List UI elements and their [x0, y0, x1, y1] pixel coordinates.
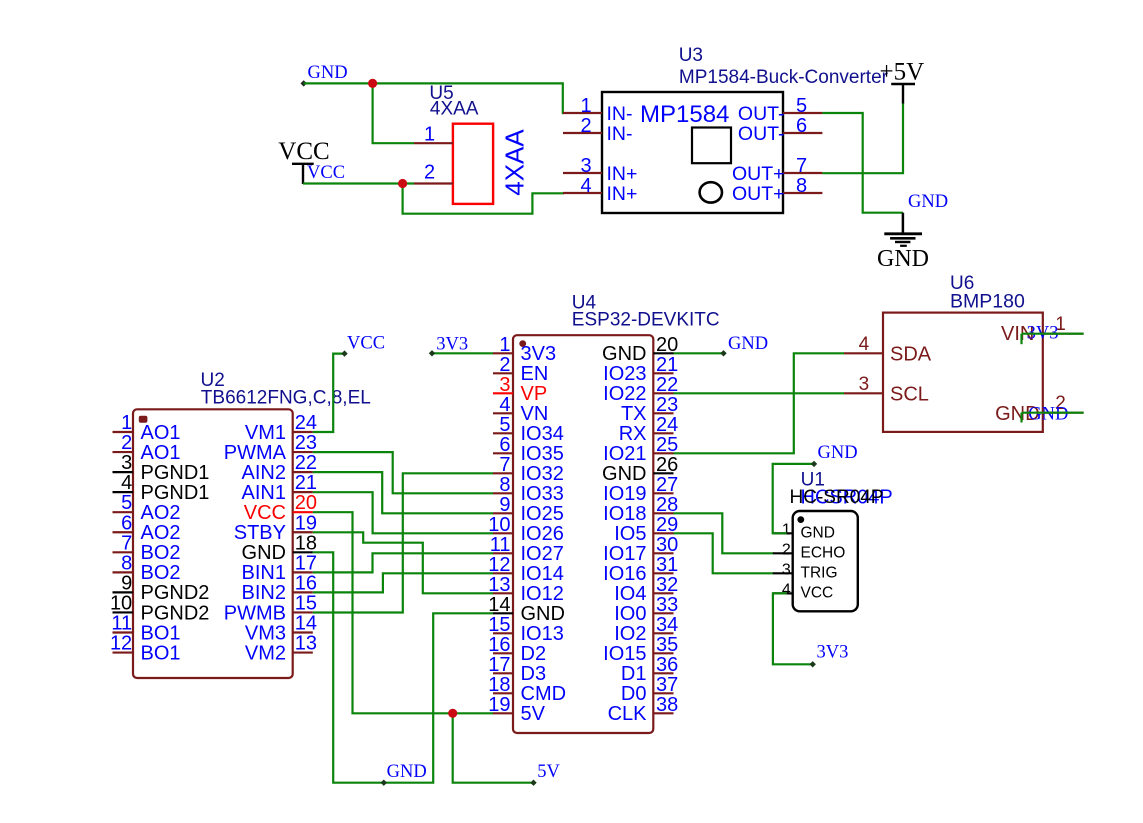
svg-text:6: 6 — [121, 512, 132, 534]
svg-text:3: 3 — [580, 155, 591, 177]
svg-text:21: 21 — [295, 472, 317, 494]
svg-text:IO23: IO23 — [603, 363, 646, 385]
svg-text:2: 2 — [499, 354, 510, 376]
wire U2.21 (AIN1) to U4.10 (IO26) — [313, 492, 493, 533]
svg-text:D0: D0 — [621, 683, 647, 705]
svg-text:1: 1 — [499, 334, 510, 356]
svg-text:21: 21 — [656, 354, 678, 376]
net label GND (U6 GND) — [1028, 405, 1068, 425]
wire U1.4 (VCC) to 3V3 label — [773, 593, 816, 667]
svg-text:1: 1 — [782, 521, 791, 538]
svg-text:3: 3 — [859, 374, 870, 395]
svg-text:GND: GND — [387, 762, 427, 782]
svg-text:BO1: BO1 — [141, 642, 181, 664]
svg-text:IO26: IO26 — [521, 523, 564, 545]
ultrasonic sensor U1 HC-SR04P — [773, 470, 893, 612]
svg-text:ESP32-DEVKITC: ESP32-DEVKITC — [572, 310, 720, 331]
svg-text:16: 16 — [488, 634, 510, 656]
svg-text:D1: D1 — [621, 663, 647, 685]
svg-text:27: 27 — [656, 474, 678, 496]
svg-text:BIN1: BIN1 — [242, 562, 286, 584]
battery holder U5 4XAA — [414, 83, 530, 204]
svg-text:14: 14 — [295, 613, 317, 635]
svg-text:3V3: 3V3 — [436, 335, 468, 355]
svg-text:STBY: STBY — [234, 522, 286, 544]
svg-text:2: 2 — [121, 432, 132, 454]
net label GND (U4 pin 20) — [728, 334, 768, 354]
svg-text:PWMA: PWMA — [224, 442, 287, 464]
svg-text:33: 33 — [656, 594, 678, 616]
svg-text:3V3: 3V3 — [817, 643, 849, 663]
svg-text:15: 15 — [488, 614, 510, 636]
svg-text:GND: GND — [728, 334, 768, 354]
svg-text:24: 24 — [295, 412, 317, 434]
svg-text:22: 22 — [295, 452, 317, 474]
net label GND (blue, at earth symbol) — [908, 192, 948, 212]
svg-text:4XAA: 4XAA — [500, 129, 530, 196]
svg-text:IO4: IO4 — [614, 583, 646, 605]
net label 3V3 (U6 VIN) — [1027, 324, 1059, 344]
wire U4.20 (GND) to label — [674, 350, 727, 356]
svg-text:IO25: IO25 — [521, 503, 564, 525]
svg-text:2: 2 — [580, 115, 591, 137]
svg-text:10: 10 — [110, 592, 132, 614]
junction 5V net — [448, 709, 457, 718]
svg-text:PWMB: PWMB — [224, 602, 286, 624]
svg-text:IO5: IO5 — [614, 523, 646, 545]
svg-text:5V: 5V — [521, 703, 546, 725]
svg-text:8: 8 — [796, 175, 807, 197]
svg-text:AO1: AO1 — [141, 422, 181, 444]
wire U2.19 (STBY) to U4.13 (IO12) — [313, 532, 493, 593]
svg-text:11: 11 — [111, 613, 132, 635]
svg-text:1: 1 — [580, 95, 591, 117]
svg-text:4: 4 — [580, 175, 591, 197]
svg-text:16: 16 — [295, 572, 317, 594]
svg-text:AO2: AO2 — [141, 522, 181, 544]
svg-text:3: 3 — [121, 452, 132, 474]
svg-text:IO34: IO34 — [521, 423, 564, 445]
svg-text:D3: D3 — [521, 663, 547, 685]
svg-text:IO18: IO18 — [603, 503, 646, 525]
net label 5V (bottom) — [537, 762, 560, 782]
svg-text:HC-SR04P: HC-SR04P — [790, 487, 884, 508]
wire U2.22 (AIN2) to U4.9 (IO25) — [313, 472, 493, 513]
svg-text:IO13: IO13 — [521, 623, 564, 645]
wire GND branch: junction to U5 pin 1 — [373, 83, 414, 143]
svg-text:3V3: 3V3 — [521, 343, 557, 365]
svg-text:VCC: VCC — [307, 163, 345, 183]
svg-text:GND: GND — [308, 63, 348, 83]
svg-text:17: 17 — [295, 552, 317, 574]
svg-text:CMD: CMD — [521, 683, 567, 705]
svg-text:32: 32 — [656, 574, 678, 596]
svg-text:SCL: SCL — [890, 384, 929, 406]
svg-text:IO21: IO21 — [603, 443, 646, 465]
svg-text:GND: GND — [908, 192, 948, 212]
wire GND: label to U3 pin 1 (IN-) — [304, 83, 565, 113]
svg-text:RX: RX — [619, 423, 647, 445]
svg-text:PGND1: PGND1 — [141, 462, 210, 484]
svg-text:4XAA: 4XAA — [430, 99, 479, 120]
net label GND (top left) — [308, 63, 348, 83]
svg-text:IO27: IO27 — [521, 543, 564, 565]
svg-text:SDA: SDA — [890, 344, 932, 366]
wire VCC label to U2.24 (VM1) — [313, 350, 348, 432]
net label VCC (blue) — [307, 163, 345, 183]
svg-text:24: 24 — [656, 414, 678, 436]
svg-text:AO1: AO1 — [141, 442, 181, 464]
svg-text:5V: 5V — [537, 762, 560, 782]
junction GND / U5.1 — [368, 79, 377, 88]
svg-text:U3: U3 — [679, 45, 703, 66]
wire U2.15 (PWMB) to U4.7 (IO32) — [313, 473, 493, 612]
svg-text:36: 36 — [656, 654, 678, 676]
power label GND (black, below earth symbol) — [877, 246, 929, 272]
net label GND (bottom) — [387, 762, 427, 782]
svg-text:9: 9 — [499, 494, 510, 516]
power flag +5V — [880, 59, 925, 104]
svg-text:5: 5 — [121, 492, 132, 514]
svg-text:17: 17 — [488, 654, 510, 676]
wire 5V branch: junction to 5V label stub — [453, 713, 537, 786]
junction VCC / U5.2 — [398, 179, 407, 188]
svg-text:38: 38 — [656, 694, 678, 716]
microcontroller U4 ESP32-DEVKITC — [488, 293, 719, 734]
svg-text:8: 8 — [121, 552, 132, 574]
svg-text:1: 1 — [424, 124, 435, 146]
motor driver U2 TB6612FNG,C,8,EL — [110, 370, 371, 678]
svg-text:EN: EN — [521, 363, 549, 385]
svg-text:VP: VP — [521, 383, 548, 405]
svg-text:2: 2 — [424, 161, 435, 183]
svg-text:D2: D2 — [521, 643, 547, 665]
svg-text:PGND2: PGND2 — [141, 602, 210, 624]
svg-text:GND: GND — [521, 603, 565, 625]
svg-text:20: 20 — [295, 492, 317, 514]
svg-text:VCC: VCC — [278, 138, 329, 165]
svg-text:VN: VN — [521, 403, 549, 425]
svg-text:OUT+: OUT+ — [732, 183, 785, 205]
wire U2.20 (VCC) to U4.19 (5V) — [313, 512, 493, 713]
wire U4.25 (IO21) to U6.4 (SDA) — [674, 353, 845, 453]
wire U2.23 (PWMA) to U4.8 (IO33) — [313, 452, 493, 493]
svg-text:GND: GND — [818, 443, 858, 463]
net label 3V3 (U4 pin 1) — [436, 335, 468, 355]
svg-text:18: 18 — [488, 674, 510, 696]
svg-text:PGND2: PGND2 — [141, 582, 210, 604]
wire U4.28 (IO18) to U1.2 (ECHO) — [674, 513, 774, 553]
svg-text:VM3: VM3 — [245, 622, 286, 644]
svg-text:PGND1: PGND1 — [141, 482, 210, 504]
svg-text:BO2: BO2 — [141, 562, 181, 584]
svg-text:GND: GND — [801, 525, 835, 542]
net label VCC (U2 VM1) — [347, 334, 385, 354]
svg-text:VCC: VCC — [347, 334, 385, 354]
svg-text:OUT-: OUT- — [738, 123, 785, 145]
net label GND (above U1) — [818, 443, 858, 463]
svg-text:IO35: IO35 — [521, 443, 564, 465]
svg-text:7: 7 — [796, 155, 807, 177]
svg-text:IO16: IO16 — [603, 563, 646, 585]
svg-text:GND: GND — [602, 463, 646, 485]
pressure sensor U6 BMP180 — [844, 273, 1084, 432]
svg-text:37: 37 — [656, 674, 678, 696]
svg-text:IO33: IO33 — [521, 483, 564, 505]
svg-text:IO32: IO32 — [521, 463, 564, 485]
svg-text:30: 30 — [656, 534, 678, 556]
wire U3.7 (OUT+) to +5V flag — [822, 103, 903, 174]
svg-text:3: 3 — [499, 374, 510, 396]
svg-text:IN+: IN+ — [607, 183, 638, 205]
svg-text:+5V: +5V — [880, 59, 925, 86]
svg-text:BO2: BO2 — [141, 542, 181, 564]
svg-text:4: 4 — [859, 334, 870, 355]
svg-text:18: 18 — [295, 532, 317, 554]
svg-text:IN-: IN- — [607, 103, 633, 125]
power symbol GND (earth) — [884, 213, 922, 246]
svg-text:IO12: IO12 — [521, 583, 564, 605]
svg-text:VCC: VCC — [801, 585, 834, 602]
svg-text:VM1: VM1 — [245, 422, 286, 444]
svg-text:CLK: CLK — [608, 703, 648, 725]
svg-text:13: 13 — [295, 633, 317, 655]
wire VCC branch: junction to U3 pin 4 (IN+) — [403, 184, 564, 214]
svg-text:5: 5 — [796, 95, 807, 117]
svg-text:AIN2: AIN2 — [242, 462, 286, 484]
svg-text:6: 6 — [499, 434, 510, 456]
wire U2.16 (BIN2) to U4.12 (IO14) — [313, 573, 493, 592]
svg-text:26: 26 — [656, 454, 678, 476]
svg-text:MP1584: MP1584 — [640, 101, 729, 128]
svg-text:23: 23 — [656, 394, 678, 416]
svg-text:IO17: IO17 — [603, 543, 646, 565]
svg-text:7: 7 — [499, 454, 510, 476]
svg-text:IO22: IO22 — [603, 383, 646, 405]
net label 3V3 (below U1) — [817, 643, 849, 663]
svg-text:IO2: IO2 — [614, 623, 646, 645]
svg-text:BIN2: BIN2 — [242, 582, 286, 604]
wire VCC: power flag to U5 pin 2 — [303, 182, 414, 184]
buck converter U3 MP1584-Buck-Converter — [563, 45, 889, 213]
svg-text:4: 4 — [499, 394, 510, 416]
wire 3V3 stub at U6.1 — [1022, 334, 1084, 345]
wire U4.22 (IO22) to U6.3 (SCL) — [674, 392, 845, 394]
svg-text:GND: GND — [1028, 405, 1068, 425]
svg-text:VCC: VCC — [244, 502, 286, 524]
svg-text:MP1584-Buck-Converter: MP1584-Buck-Converter — [679, 67, 889, 88]
svg-text:GND: GND — [877, 246, 929, 272]
svg-text:6: 6 — [796, 115, 807, 137]
svg-text:ECHO: ECHO — [801, 545, 846, 562]
wire 3V3 label to U4.1 — [429, 350, 493, 356]
net label anchor (GND wire end) — [301, 80, 307, 86]
svg-text:2: 2 — [782, 541, 791, 558]
svg-text:7: 7 — [121, 532, 132, 554]
svg-text:23: 23 — [295, 432, 317, 454]
svg-text:IN+: IN+ — [607, 163, 638, 185]
svg-text:15: 15 — [295, 592, 317, 614]
svg-text:OUT-: OUT- — [738, 103, 785, 125]
svg-text:4: 4 — [782, 581, 791, 598]
svg-text:IN-: IN- — [607, 123, 633, 145]
svg-text:1: 1 — [121, 412, 132, 434]
svg-text:IO19: IO19 — [603, 483, 646, 505]
svg-text:AIN1: AIN1 — [242, 482, 286, 504]
svg-text:IO15: IO15 — [603, 643, 646, 665]
svg-text:5: 5 — [499, 414, 510, 436]
svg-text:TX: TX — [621, 403, 647, 425]
svg-text:TRIG: TRIG — [801, 565, 838, 582]
wire U2.18 (GND) to U4.14 (GND) — [313, 552, 493, 786]
svg-text:BO1: BO1 — [141, 622, 181, 644]
wire U2.17 (BIN1) to U4.11 (IO27) — [313, 553, 493, 572]
svg-text:3: 3 — [782, 561, 791, 578]
svg-text:AO2: AO2 — [141, 502, 181, 524]
svg-text:IO0: IO0 — [614, 603, 646, 625]
wire GND label to U1.1 (GND) — [773, 461, 818, 534]
svg-text:35: 35 — [656, 634, 678, 656]
power flag VCC (battery input) — [278, 138, 329, 184]
svg-text:19: 19 — [295, 512, 317, 534]
svg-text:31: 31 — [656, 554, 678, 576]
wire GND stub at U6.2 — [1022, 413, 1084, 423]
svg-text:VM2: VM2 — [245, 642, 286, 664]
wire U4.29 (IO5) to U1.3 (TRIG) — [674, 533, 774, 573]
svg-text:IO14: IO14 — [521, 563, 564, 585]
svg-text:34: 34 — [656, 614, 678, 636]
svg-text:12: 12 — [110, 633, 132, 655]
svg-text:8: 8 — [499, 474, 510, 496]
svg-text:BMP180: BMP180 — [950, 291, 1025, 313]
svg-text:9: 9 — [121, 572, 132, 594]
svg-text:OUT+: OUT+ — [732, 163, 785, 185]
svg-text:4: 4 — [121, 472, 132, 494]
svg-text:GND: GND — [242, 542, 286, 564]
wire U3.5 (OUT-) to GND symbol — [822, 113, 903, 213]
svg-text:TB6612FNG,C,8,EL: TB6612FNG,C,8,EL — [201, 388, 371, 409]
svg-text:GND: GND — [602, 343, 646, 365]
